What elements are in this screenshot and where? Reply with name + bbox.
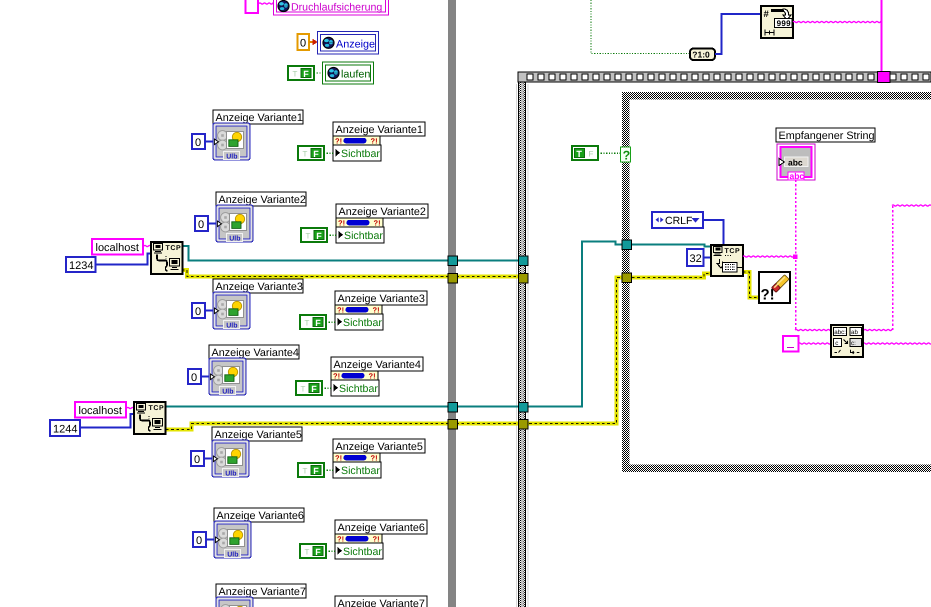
svg-text:?!: ?! [333, 371, 340, 380]
string constant "localhost" (TCP#1) [92, 239, 143, 255]
wire: boolean to Sichtbar property 4 [322, 387, 331, 389]
wire: boolean to laufen (green dotted) [314, 72, 322, 74]
svg-text:localhost: localhost [79, 405, 122, 417]
wire: 1244 to TCP#2 (blue) [80, 414, 134, 428]
svg-text:T: T [301, 385, 306, 394]
subVI icon Anzeige Variante4 [209, 358, 246, 395]
svg-text:?!: ?! [761, 287, 775, 304]
wire: 0 to Anzeige (orange) with arrow [310, 41, 314, 43]
svg-text:T: T [303, 150, 308, 159]
svg-text:Anzeige Variante2: Anzeige Variante2 [219, 194, 306, 206]
shared variable node "Druchlaufsicherung" (clipped at top) [274, 0, 389, 15]
wire: 0 to subVI 2 (blue) [208, 223, 216, 225]
tunnel: teal on sequence border (TCP#2) [519, 403, 529, 413]
property node label "Anzeige Variante6" [335, 520, 427, 534]
case selector terminal [?] [621, 147, 631, 162]
label "Anzeige Variante6" [214, 508, 304, 522]
svg-text:T: T [306, 232, 311, 241]
property node U5 "Sichtbar" row [333, 462, 381, 478]
svg-text:?!: ?! [373, 305, 380, 314]
boolean constant FALSE for Sichtbar 4 [296, 381, 322, 395]
junction dot on pink wire [793, 254, 798, 258]
subVI icon Anzeige Variante5 [212, 440, 249, 477]
property node U4 "Sichtbar" row [331, 380, 379, 396]
wire: magenta vertical into sequence tunnel [880, 0, 882, 71]
svg-text:c:: c: [851, 340, 856, 347]
wire: 1234 to TCP#1 (blue) [96, 254, 152, 265]
string constant "_" [783, 336, 799, 352]
label "Anzeige Variante4" [209, 345, 299, 359]
svg-text:T: T [293, 70, 298, 79]
svg-text:Anzeige Variante1: Anzeige Variante1 [216, 112, 303, 124]
svg-text:32: 32 [690, 253, 702, 265]
svg-text:Empfangener String: Empfangener String [779, 130, 875, 142]
svg-text:?!: ?! [338, 218, 345, 227]
wire: boolean to Sichtbar property 2 [327, 234, 336, 236]
numeric constant 0 for Variante1 [192, 134, 205, 149]
svg-text:?1:0: ?1:0 [692, 50, 710, 60]
svg-text:F: F [315, 318, 321, 328]
property node label "Anzeige Variante7" [335, 596, 427, 607]
svg-text:Sichtbar: Sichtbar [343, 546, 382, 558]
svg-text:TCP: TCP [166, 245, 182, 252]
svg-text:Anzeige Variante5: Anzeige Variante5 [336, 441, 423, 453]
numeric constant 0 for Variante2 [195, 216, 208, 231]
string constant "localhost" (TCP#2) [75, 402, 126, 418]
svg-text:1244: 1244 [53, 424, 77, 436]
svg-text:Ulb: Ulb [229, 234, 240, 242]
svg-text:abc: abc [790, 171, 805, 181]
svg-text:0: 0 [195, 306, 201, 318]
svg-text:0: 0 [196, 535, 202, 547]
svg-text:?!: ?! [337, 305, 344, 314]
svg-text:T: T [576, 149, 582, 159]
svg-text:0: 0 [198, 219, 204, 231]
numeric constant 0 for Variante6 [193, 532, 206, 547]
property node label "Anzeige Variante5" [333, 439, 425, 453]
property node U5 class ribbon [333, 453, 380, 462]
svg-text:?!: ?! [335, 453, 342, 462]
property node U2 class ribbon [336, 218, 383, 227]
wire: boolean to Sichtbar property 3 [326, 321, 335, 323]
boolean constant FALSE for Sichtbar 1 [298, 146, 324, 160]
subVI icon Anzeige Variante6 [214, 521, 251, 558]
property node U1 class ribbon [333, 136, 380, 145]
boolean constant FALSE for Sichtbar 2 [301, 228, 327, 242]
svg-text:1234: 1234 [69, 260, 93, 272]
svg-text:0: 0 [191, 372, 197, 384]
svg-text:F: F [303, 69, 309, 79]
shared variable node "Anzeige" [318, 32, 379, 55]
wire: teal inside case to TCP Read [632, 245, 711, 247]
wire: boolean to Sichtbar property 5 [324, 469, 333, 471]
wire: pink vertical from right (to Search/Replace) [892, 206, 894, 330]
wire: TCP#2 error out (yellow/black) [166, 278, 631, 430]
svg-text:laufen: laufen [341, 68, 370, 80]
wire: TCP Read data out (wavy pink) [743, 256, 794, 257]
tunnel: error on while border (TCP#2) [448, 420, 458, 430]
property node U2 "Sichtbar" row [336, 227, 384, 243]
svg-text:F: F [316, 231, 322, 241]
svg-text:c: c [835, 340, 838, 347]
tunnel: error on case border [622, 273, 632, 283]
svg-text:?!: ?! [335, 136, 342, 145]
boolean constant FALSE for Sichtbar 5 [298, 463, 324, 477]
property node U6 "Sichtbar" row [335, 543, 383, 559]
wire: CRLF to TCP Read mode (blue) [703, 220, 724, 245]
subVI icon Anzeige Variante3 [213, 292, 250, 329]
wire: 0 to subVI 5 (blue) [204, 458, 212, 460]
svg-text:Anzeige Variante3: Anzeige Variante3 [216, 281, 303, 293]
svg-text:Anzeige Variante3: Anzeige Variante3 [338, 293, 425, 305]
Clear Errors VI (eraser ?!) [759, 272, 790, 304]
ring constant CRLF [652, 212, 703, 228]
svg-text:F: F [589, 150, 594, 159]
numeric constant 1234 [66, 257, 96, 272]
wire: 0 to subVI 3 (blue) [205, 310, 213, 312]
tunnel: magenta on sequence top border [878, 72, 891, 83]
svg-text:Ulb: Ulb [222, 387, 233, 395]
svg-text:Anzeige Variante2: Anzeige Variante2 [339, 206, 426, 218]
svg-text:#: # [764, 9, 770, 20]
outer while-loop left border (gray bar) [448, 0, 456, 607]
svg-text:Ulb: Ulb [226, 152, 237, 160]
wire: 0 to subVI 4 (blue) [201, 376, 209, 378]
wire: TRUE to case selector (green dotted) [598, 152, 621, 154]
svg-text:0: 0 [194, 454, 200, 466]
wire: boolean to Sichtbar property 1 [324, 152, 333, 154]
tunnel: error on sequence border (TCP#1) [519, 274, 529, 284]
label "Empfangener String" [776, 128, 875, 142]
svg-text:Anzeige Variante7: Anzeige Variante7 [338, 598, 425, 607]
wire: TCP Read error to Clear Errors [743, 272, 759, 298]
svg-text:Anzeige Variante6: Anzeige Variante6 [217, 510, 304, 522]
wire: TCP#2 connection ID (teal) [166, 242, 631, 407]
wire: pink top-right horizontal [892, 205, 931, 206]
case structure border (checkered) [622, 92, 931, 472]
wire: Search/Replace output (wavy pink) [863, 343, 931, 344]
svg-text:?!: ?! [373, 534, 380, 543]
svg-text:abc: abc [788, 157, 803, 167]
svg-text:?!: ?! [337, 534, 344, 543]
numeric constant 0 for Variante3 [192, 303, 205, 318]
svg-text:localhost: localhost [96, 242, 139, 254]
string constant (pink, top-left, clipped) [246, 0, 259, 13]
svg-text:Sichtbar: Sichtbar [341, 465, 380, 477]
svg-text:F: F [315, 547, 321, 557]
wire: TCP#1 error out (yellow/black) [182, 270, 528, 277]
shared variable node "laufen" [323, 62, 374, 84]
svg-text:CRLF: CRLF [665, 215, 692, 227]
label "Anzeige Variante3" [213, 279, 303, 293]
svg-text:Anzeige Variante4: Anzeige Variante4 [212, 347, 299, 359]
boolean constant FALSE for Sichtbar 6 [300, 544, 326, 558]
svg-text:?!: ?! [369, 371, 376, 380]
svg-text:Anzeige: Anzeige [336, 38, 375, 50]
svg-text:F: F [311, 384, 317, 394]
svg-text:Anzeige Variante1: Anzeige Variante1 [336, 124, 423, 136]
svg-text:abc:: abc: [834, 329, 846, 336]
TCP Open Connection VI #2 [134, 402, 166, 434]
label "Anzeige Variante2" [216, 192, 306, 206]
svg-text:ab: ab [851, 329, 858, 336]
label "Anzeige Variante7" [216, 584, 306, 598]
wire: localhost to TCP#2 (wavy pink) [127, 407, 134, 408]
tunnel: teal on sequence border (TCP#1) [519, 256, 529, 266]
svg-text:Sichtbar: Sichtbar [339, 383, 378, 395]
svg-text:Anzeige Variante6: Anzeige Variante6 [338, 522, 425, 534]
svg-text:0: 0 [195, 137, 201, 149]
subVI icon Anzeige Variante7 [216, 597, 253, 607]
TCP Read VI [711, 245, 743, 276]
svg-text:Sichtbar: Sichtbar [341, 148, 380, 160]
property node label "Anzeige Variante3" [335, 291, 427, 305]
svg-text:T: T [305, 548, 310, 557]
svg-text:0: 0 [300, 38, 306, 50]
svg-text:Anzeige Variante7: Anzeige Variante7 [219, 586, 306, 598]
svg-text:Ulb: Ulb [225, 469, 236, 477]
label "Anzeige Variante5" [212, 427, 302, 441]
wire: indicator down (pink dashed) [795, 180, 797, 330]
wire: TCP#1 connection ID (teal) [182, 246, 528, 261]
svg-text:Sichtbar: Sichtbar [344, 230, 383, 242]
wire: green dotted from top into ?1:0 [591, 0, 690, 54]
tunnel: error on sequence border (TCP#2) [519, 420, 529, 430]
boolean constant TRUE [572, 146, 598, 160]
wire: ?1:0 to Wait (blue) [715, 14, 761, 54]
property node U6 class ribbon [335, 534, 382, 543]
subVI icon Anzeige Variante2 [216, 205, 253, 242]
subVI icon Anzeige Variante1 [213, 123, 250, 160]
boolean constant FALSE for Sichtbar 3 [300, 315, 326, 329]
svg-text:Sichtbar: Sichtbar [343, 317, 382, 329]
label "Anzeige Variante1" [213, 110, 303, 124]
TCP Open Connection VI #1 [151, 242, 183, 274]
wire: pink to Search/Replace (horizontal) [795, 329, 892, 330]
wire: "_" to Search/Replace (wavy pink) [799, 343, 831, 344]
boolean constant FALSE for laufen [288, 66, 314, 80]
svg-text:T: T [303, 467, 308, 476]
tunnel: teal on while border (TCP#1) [448, 256, 458, 266]
svg-text:?: ? [623, 149, 631, 163]
tunnel: teal on while border (TCP#2) [448, 403, 458, 413]
wire: 32 to TCP Read (blue) [704, 257, 712, 259]
numeric constant 0 for Variante5 [191, 451, 204, 466]
svg-text:999: 999 [777, 19, 791, 28]
numeric constant 0 (orange, DBL) [298, 34, 310, 50]
Boolean To (1,0) function ?1:0 [690, 49, 715, 61]
svg-text:F: F [313, 466, 319, 476]
property node U4 class ribbon [331, 371, 378, 380]
property node label "Anzeige Variante2" [336, 204, 428, 218]
Wait Until Next ms Multiple VI with 999 [761, 6, 793, 38]
wire: error inside case to TCP Read [632, 274, 711, 278]
flat sequence structure left border [516, 72, 529, 607]
flat sequence structure top border (film strip) [518, 72, 931, 82]
numeric constant 32 [687, 249, 704, 266]
svg-text:Anzeige Variante4: Anzeige Variante4 [334, 359, 421, 371]
tunnel: error on while border (TCP#1) [448, 274, 458, 284]
tunnel: teal on case border [622, 240, 632, 250]
svg-text:TCP: TCP [725, 248, 741, 255]
svg-text:Druchlaufsicherung: Druchlaufsicherung [291, 2, 382, 14]
numeric constant 0 for Variante4 [188, 369, 201, 384]
wire: Wait to magenta vertical (wavy pink) [793, 21, 881, 22]
svg-text:TCP: TCP [149, 405, 165, 412]
numeric constant 1244 [50, 420, 80, 436]
property node U1 "Sichtbar" row [333, 145, 381, 161]
property node label "Anzeige Variante1" [333, 122, 425, 136]
wire: string constant to shared variable (wavy pink) [259, 3, 273, 4]
svg-text:Ulb: Ulb [226, 321, 237, 329]
wire: 0 to subVI 1 (blue) [205, 141, 213, 143]
property node label "Anzeige Variante4" [331, 357, 423, 371]
wire: 0 to subVI 6 (blue) [206, 539, 214, 541]
svg-text:?!: ?! [371, 453, 378, 462]
Search and Replace String VI [831, 325, 863, 357]
svg-text:T: T [305, 319, 310, 328]
svg-text:F: F [313, 149, 319, 159]
svg-text:?!: ?! [374, 218, 381, 227]
svg-text:?!: ?! [371, 136, 378, 145]
wire: boolean to Sichtbar property 6 [326, 550, 335, 552]
property node U3 class ribbon [335, 305, 382, 314]
property node U3 "Sichtbar" row [335, 314, 383, 330]
string indicator terminal "Empfangener String" [777, 144, 815, 181]
svg-text:Anzeige Variante5: Anzeige Variante5 [215, 429, 302, 441]
wire: localhost to TCP#1 (wavy pink) [144, 245, 151, 246]
svg-text:Ulb: Ulb [227, 550, 238, 558]
